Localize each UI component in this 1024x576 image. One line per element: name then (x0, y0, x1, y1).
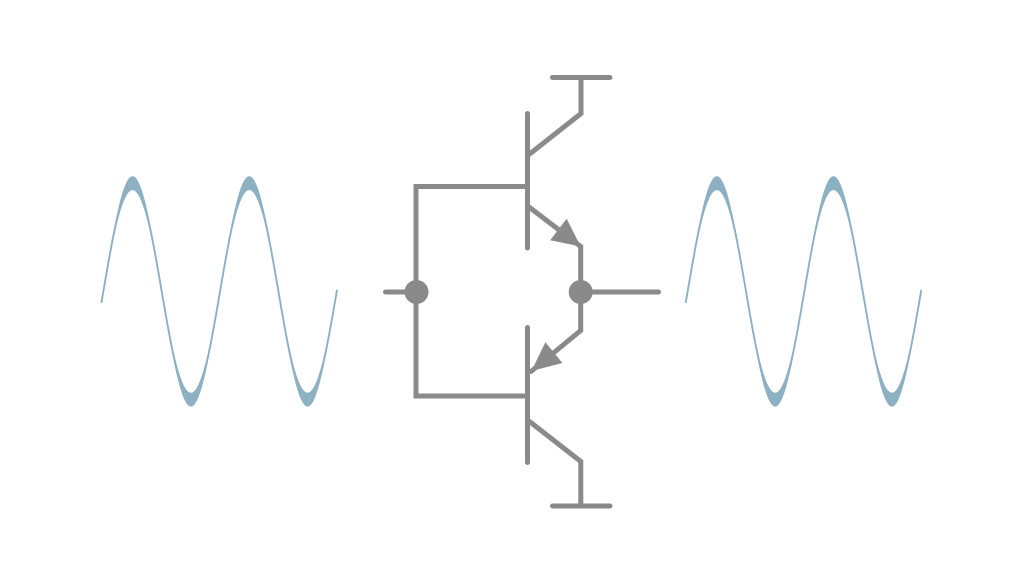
transistor Q2 emitter (PNP, from output node) (531, 292, 581, 372)
Vee rail (bottom supply bar) (553, 504, 611, 509)
output sine wave centerline (686, 183, 921, 399)
Vcc rail (top supply bar) (553, 75, 611, 80)
Q2 emitter arrowhead (PNP, pointing into base) (532, 342, 563, 371)
transistor Q1 emitter (NPN, arrow out) (529, 207, 581, 292)
output sine wave band (686, 176, 921, 406)
transistor Q1 base bar (NPN) (525, 114, 530, 249)
wire: input stub (386, 290, 417, 295)
input sine wave band (102, 176, 337, 406)
wire: base loop (Q1 base - left rail - Q2 base) (416, 187, 528, 397)
transistor Q2 collector (530, 422, 581, 507)
wire: output line (581, 290, 659, 295)
node: output junction dot (569, 280, 593, 304)
Q1 emitter arrowhead (NPN) (550, 219, 581, 247)
transistor Q2 base bar (PNP) (525, 328, 530, 463)
input sine wave centerline (102, 183, 337, 399)
wire: top rail to Q1 collector (529, 78, 581, 155)
node: input junction dot (405, 280, 429, 304)
